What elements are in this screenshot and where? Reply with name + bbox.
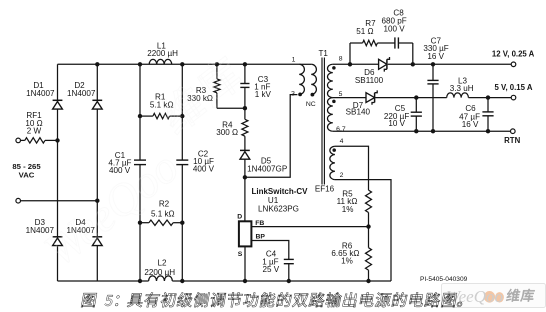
svg-text:2: 2 bbox=[340, 172, 344, 179]
junction C1 top bbox=[138, 62, 142, 66]
junction C5 top bbox=[414, 95, 418, 99]
svg-text:EF16: EF16 bbox=[315, 184, 335, 193]
svg-text:25 V: 25 V bbox=[262, 265, 279, 274]
inductor L2 2200uH bbox=[149, 276, 173, 281]
AC input terminal N bbox=[16, 198, 21, 203]
wire bias pin2 return bbox=[335, 180, 391, 281]
capacitor C2 10uF bbox=[176, 159, 188, 161]
wire FB bbox=[251, 226, 368, 228]
svg-text:5.1 kΩ: 5.1 kΩ bbox=[151, 210, 175, 219]
capacitor C4 1uF bbox=[284, 258, 294, 260]
svg-text:1N4007GP: 1N4007GP bbox=[247, 165, 287, 174]
svg-text:16 V: 16 V bbox=[427, 52, 444, 61]
transformer primary winding (pins 1-3) bbox=[299, 63, 311, 65]
diode D5 1N4007GP bbox=[240, 149, 250, 151]
svg-text:12 V, 0.25 A: 12 V, 0.25 A bbox=[492, 50, 535, 59]
resistor R2 5.1k bbox=[140, 222, 149, 224]
svg-text:1: 1 bbox=[292, 57, 296, 64]
diode D7 SB140 bbox=[366, 93, 375, 103]
inductor L1 2200uH bbox=[149, 59, 172, 64]
wire drain to primary pin3 bbox=[245, 95, 298, 178]
resistor R6 6.65k bbox=[368, 227, 370, 248]
resistor RF1 bbox=[21, 139, 25, 141]
wire snubber left bbox=[349, 43, 351, 64]
svg-text:10 V: 10 V bbox=[388, 119, 405, 128]
resistor R4 300 bbox=[244, 108, 246, 119]
diode D1 1N4007 bbox=[53, 99, 63, 101]
svg-text:1N4007: 1N4007 bbox=[26, 89, 55, 98]
capacitor C3 1nF bbox=[244, 64, 246, 83]
capacitor C5 220uF bbox=[415, 98, 417, 113]
svg-text:300 Ω: 300 Ω bbox=[216, 128, 238, 137]
wire clamp bottom bbox=[217, 107, 245, 109]
wire bottom rail bbox=[58, 280, 149, 282]
svg-text:LinkSwitch-CV: LinkSwitch-CV bbox=[251, 187, 308, 196]
svg-text:1%: 1% bbox=[341, 257, 353, 266]
wire D1-D3 column bbox=[57, 100, 59, 237]
svg-text:SB1100: SB1100 bbox=[355, 76, 384, 85]
junction clamp node bbox=[243, 106, 247, 110]
capacitor C7 330uF bbox=[432, 64, 434, 80]
junction FB node bbox=[366, 224, 370, 228]
resistor R1 5.1k bbox=[140, 115, 153, 117]
svg-text:RTN: RTN bbox=[504, 136, 520, 145]
svg-text:L2: L2 bbox=[157, 258, 167, 267]
watermark WeeQoo box bbox=[442, 284, 546, 308]
inductor L3 3.3uH bbox=[447, 93, 469, 98]
junction C3 top bbox=[243, 62, 247, 66]
wire 12V rail bbox=[333, 63, 379, 65]
svg-text:51 Ω: 51 Ω bbox=[356, 27, 373, 36]
junction C6 top bbox=[486, 95, 490, 99]
diode D6 SB1100 bbox=[379, 59, 387, 69]
svg-text:T1: T1 bbox=[318, 49, 328, 58]
diode D4 1N4007 bbox=[92, 236, 102, 238]
output terminal RTN bbox=[511, 129, 516, 134]
svg-text:100 V: 100 V bbox=[384, 24, 406, 33]
junction C5 bottom bbox=[414, 129, 418, 133]
op-amp U1 LNK623PG body bbox=[239, 221, 252, 246]
junction RF1-bridge bbox=[55, 138, 59, 142]
junction C7 top bbox=[431, 62, 435, 66]
caption figure 5 Chinese text bbox=[81, 293, 97, 307]
junction U1 source bottom bbox=[243, 279, 247, 283]
svg-text:NC: NC bbox=[306, 101, 316, 108]
svg-text:SB140: SB140 bbox=[346, 108, 371, 117]
watermark diagonal faint bbox=[17, 52, 272, 276]
wire RTN rail bbox=[333, 130, 511, 132]
svg-text:2200 µH: 2200 µH bbox=[144, 268, 175, 277]
svg-text:2200 µH: 2200 µH bbox=[147, 49, 178, 58]
svg-text:VAC: VAC bbox=[19, 171, 35, 180]
junction R6 bottom bbox=[366, 279, 370, 283]
wire 5V rail bbox=[333, 97, 366, 99]
transformer bias winding (pins 4-2) bbox=[330, 146, 335, 179]
svg-text:D: D bbox=[237, 213, 242, 220]
wire AC N to bridge bbox=[21, 200, 98, 202]
wire top rail (rectified DC bus) bbox=[58, 63, 300, 65]
wire C1 column bbox=[139, 64, 141, 160]
junction L2 left bbox=[138, 279, 142, 283]
svg-text:5.1 kΩ: 5.1 kΩ bbox=[150, 101, 174, 110]
svg-text:PI-5405-040309: PI-5405-040309 bbox=[420, 276, 468, 283]
wire bias pin4 to divider bbox=[335, 146, 369, 190]
svg-text:400 V: 400 V bbox=[193, 164, 215, 173]
svg-text:3: 3 bbox=[291, 91, 295, 98]
svg-text:1%: 1% bbox=[342, 205, 354, 214]
diode D2 1N4007 bbox=[92, 99, 102, 101]
wire BP bbox=[251, 241, 288, 260]
resistor R7 51 bbox=[350, 42, 363, 44]
wire snubber right bbox=[412, 43, 414, 64]
svg-text:S: S bbox=[238, 251, 243, 258]
svg-text:4: 4 bbox=[340, 138, 344, 145]
svg-text:BP: BP bbox=[255, 234, 265, 241]
resistor R5 11k bbox=[366, 190, 372, 212]
wire C2 column bbox=[181, 64, 183, 160]
wire drain to U1 bbox=[244, 177, 246, 221]
capacitor C6 47uF bbox=[487, 98, 489, 112]
wire D2-D4 column bbox=[96, 64, 98, 100]
junction snubber left bbox=[348, 62, 352, 66]
junction R1 left bbox=[138, 114, 142, 118]
transformer T1 core bbox=[321, 58, 323, 185]
junction R1 right bbox=[180, 114, 184, 118]
svg-text:1N4007: 1N4007 bbox=[67, 89, 96, 98]
svg-text:8: 8 bbox=[339, 55, 343, 62]
output terminal 12V bbox=[511, 62, 516, 67]
junction D2 top bbox=[95, 62, 99, 66]
junction AC N at D2-D4 bbox=[95, 199, 99, 203]
svg-text:WeeQoo: WeeQoo bbox=[446, 287, 503, 306]
resistor R3 330k bbox=[216, 64, 218, 79]
transformer secondary winding 5V (pins 5-6,7) bbox=[327, 98, 332, 132]
junction C2 top bbox=[180, 62, 184, 66]
svg-text:16 V: 16 V bbox=[462, 120, 479, 129]
svg-text:FB: FB bbox=[255, 220, 264, 227]
svg-text:1 kV: 1 kV bbox=[255, 90, 272, 99]
junction R2 left bbox=[138, 221, 142, 225]
wire U1 source bbox=[244, 246, 246, 281]
diode D3 1N4007 bbox=[53, 236, 63, 238]
output terminal 5V bbox=[511, 95, 516, 100]
svg-text:3.3 uH: 3.3 uH bbox=[450, 84, 474, 93]
svg-text:2 W: 2 W bbox=[27, 126, 42, 135]
capacitor C1 4.7uF bbox=[134, 159, 146, 161]
junction snubber right bbox=[411, 62, 415, 66]
transformer secondary winding 12V (pins 8-5) bbox=[327, 64, 332, 97]
svg-text:5 V, 0.15 A: 5 V, 0.15 A bbox=[494, 83, 532, 92]
svg-text:LNK623PG: LNK623PG bbox=[258, 204, 299, 213]
junction drain node bbox=[243, 175, 247, 179]
junction L2 right bbox=[180, 279, 184, 283]
junction C7 bottom bbox=[431, 129, 435, 133]
capacitor C8 680pF bbox=[394, 37, 396, 48]
junction R3 top bbox=[215, 62, 219, 66]
junction C4 bottom bbox=[287, 279, 291, 283]
AC input terminal L bbox=[16, 138, 21, 143]
junction C6 bottom bbox=[486, 129, 490, 133]
junction R2 right bbox=[180, 221, 184, 225]
